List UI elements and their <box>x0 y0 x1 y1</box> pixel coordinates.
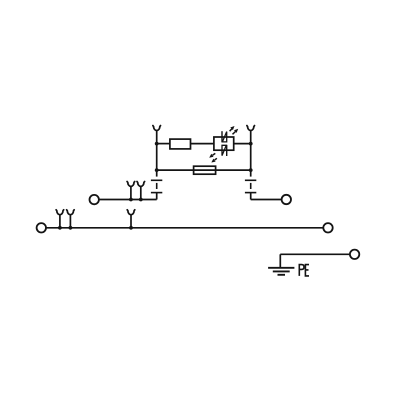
clamp terminal (bottom rail, first) <box>56 210 64 228</box>
clamp terminal (bottom rail, center) <box>127 210 135 228</box>
resistor R1 <box>170 139 191 149</box>
disconnect link right (upper bar) <box>245 179 256 181</box>
disconnect link right (lower stub) <box>250 193 252 200</box>
disconnect link left (lower bar) <box>151 192 162 194</box>
ground / earth symbol (bar 2) <box>273 270 290 272</box>
wire (LED block to right terminal) <box>234 143 251 145</box>
junction dot (bottom rail, second) <box>69 226 73 230</box>
wire (PE drop to ground) <box>279 254 281 267</box>
conductor end circle (middle right) <box>282 195 291 204</box>
wire (left vertical of measuring loop) <box>156 144 158 171</box>
fuse F1 <box>194 166 216 174</box>
conductor end circle (bottom left) <box>37 223 46 232</box>
junction dot (bottom rail, first) <box>58 226 62 230</box>
wire (middle rail) <box>99 199 157 201</box>
clamp terminal (top right) <box>247 126 255 144</box>
conductor end circle (middle left) <box>90 195 99 204</box>
ground / earth symbol (bar 1) <box>268 267 294 269</box>
LED D1 (upper, cathode bar left) <box>222 131 227 142</box>
disconnect link right (lower bar) <box>245 192 256 194</box>
wire (PE rail) <box>280 253 349 255</box>
wire (right vertical of measuring loop) <box>250 144 252 171</box>
label PE (letter P) <box>299 265 304 276</box>
junction dot (left lower rail) <box>155 168 159 172</box>
wire (top rail, terminal to resistor) <box>157 143 170 145</box>
disconnect link left (upper bar) <box>151 179 162 181</box>
junction dot (middle rail, second) <box>139 198 143 202</box>
light emission arrow (D1 lower) <box>233 129 239 135</box>
disconnect link right (dashed gap) <box>250 183 252 189</box>
clamp terminal (middle rail, first) <box>127 182 135 200</box>
conductor end circle (PE right) <box>350 250 359 259</box>
disconnect link left (dashed gap) <box>156 183 158 189</box>
clamp terminal (top left) <box>153 126 161 144</box>
conductor end circle (bottom right) <box>323 223 332 232</box>
wire (bottom rail) <box>46 227 323 229</box>
disconnect link left (upper stub) <box>156 170 158 177</box>
ground / earth symbol (bar 3) <box>278 274 286 276</box>
light emission arrow (D2 lower) <box>211 158 217 162</box>
clamp terminal (middle rail, second) <box>137 182 145 200</box>
light emission arrow (D1 upper) <box>230 126 235 131</box>
wire (lower rail to fuse) <box>157 169 194 171</box>
label PE (letter E) <box>305 265 309 276</box>
disconnect link right (upper stub) <box>250 170 252 177</box>
junction dot (right lower rail) <box>249 168 253 172</box>
disconnect link left (lower stub) <box>156 193 158 200</box>
wire (fuse to right vertical) <box>216 169 251 171</box>
clamp terminal (bottom rail, second) <box>67 210 75 228</box>
junction dot (top-right rail) <box>249 142 253 146</box>
LED block box U1 <box>214 137 234 150</box>
junction dot (top-left rail) <box>155 142 159 146</box>
LED D2 (lower, cathode bar right) <box>222 145 227 156</box>
junction dot (bottom rail, center) <box>129 226 133 230</box>
light emission arrow (D2 upper) <box>209 153 215 157</box>
wire (resistor to LED block) <box>191 143 214 145</box>
wire (right disconnect to circle) <box>251 199 282 201</box>
junction dot (middle rail, first) <box>129 198 133 202</box>
